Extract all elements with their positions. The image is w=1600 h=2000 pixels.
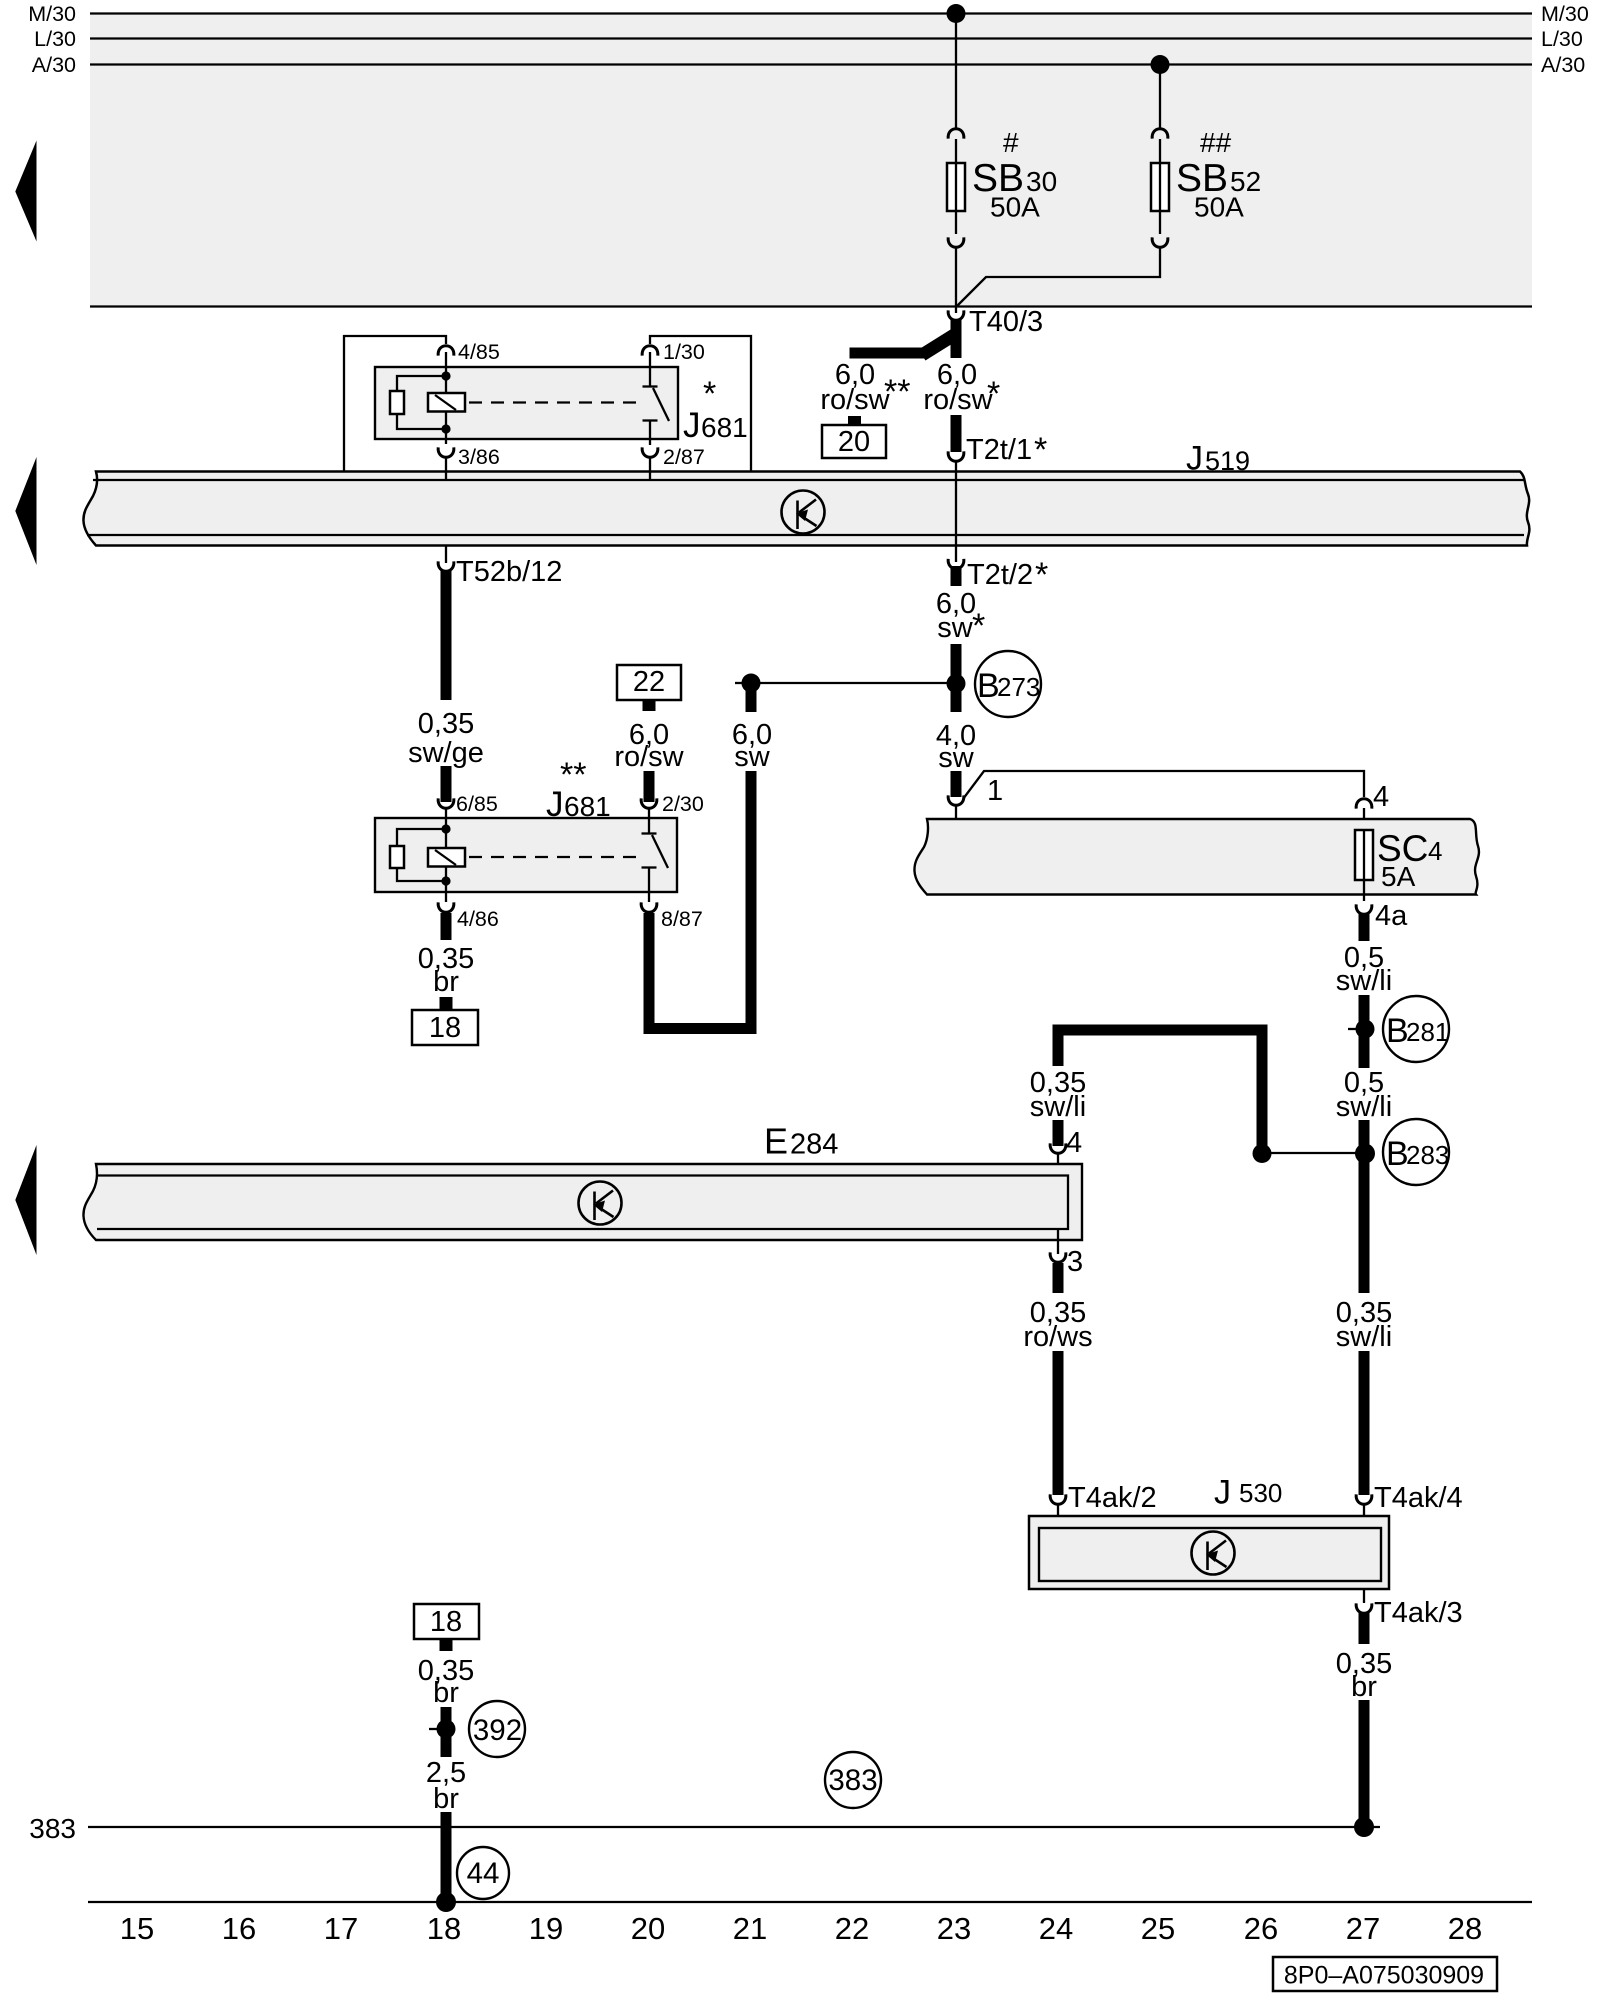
terminal T52b/12 bbox=[445, 545, 447, 563]
svg-text:4: 4 bbox=[1373, 781, 1389, 813]
relay 2 resistor branch bbox=[397, 829, 446, 846]
thin line T2t/1 to T2t/2 through J519 bbox=[955, 470, 957, 562]
wire 6,0 ro/sw** branch bbox=[850, 348, 929, 359]
svg-text:21: 21 bbox=[733, 1911, 767, 1946]
svg-text:4/86: 4/86 bbox=[457, 907, 499, 931]
svg-text:383: 383 bbox=[828, 1764, 877, 1797]
svg-text:sw/li: sw/li bbox=[1336, 1321, 1392, 1353]
svg-text:25: 25 bbox=[1141, 1911, 1175, 1946]
junction on ground line 383 bbox=[1354, 1817, 1374, 1837]
terminal 8/87 bbox=[641, 902, 657, 912]
terminal T2t/1* bbox=[948, 451, 964, 461]
svg-text:4/85: 4/85 bbox=[458, 340, 500, 364]
bus bar A/30 bbox=[90, 63, 1532, 65]
svg-text:ro/sw: ro/sw bbox=[923, 384, 993, 416]
svg-text:284: 284 bbox=[790, 1129, 838, 1161]
svg-text:*: * bbox=[987, 375, 1000, 413]
svg-text:273: 273 bbox=[997, 672, 1040, 702]
fuse SB52 top connector bbox=[1152, 129, 1168, 139]
svg-text:27: 27 bbox=[1346, 1911, 1380, 1946]
svg-text:M/30: M/30 bbox=[1541, 2, 1589, 26]
wire SB30 to T40/3 bbox=[955, 247, 957, 313]
svg-text:17: 17 bbox=[324, 1911, 358, 1946]
wire M/30 to fuse SB30 bbox=[955, 14, 957, 130]
svg-text:18: 18 bbox=[427, 1911, 461, 1946]
wire 6,0 sw* bbox=[951, 566, 962, 586]
svg-text:8/87: 8/87 bbox=[661, 907, 703, 931]
page arrow 3 bbox=[15, 1145, 36, 1255]
svg-text:T4ak/4: T4ak/4 bbox=[1374, 1482, 1463, 1514]
svg-text:19: 19 bbox=[529, 1911, 563, 1946]
connector 20 bbox=[848, 416, 861, 426]
wire 0,35 br (T4ak/3) bbox=[1359, 1613, 1370, 1644]
svg-text:6/85: 6/85 bbox=[456, 792, 498, 816]
fuse SB52 50A bbox=[1151, 163, 1169, 211]
connector 18 (middle) bbox=[412, 1010, 478, 1045]
terminal 1/30 bbox=[642, 346, 658, 356]
terminal 4a bbox=[1363, 894, 1365, 901]
wire 0,35 ro/ws bbox=[1053, 1263, 1064, 1293]
svg-text:*: * bbox=[1034, 431, 1047, 469]
svg-text:681: 681 bbox=[701, 412, 748, 443]
svg-text:sw/li: sw/li bbox=[1336, 1091, 1392, 1123]
svg-text:2/30: 2/30 bbox=[662, 792, 704, 816]
terminal 3 (E284) bbox=[1057, 1229, 1059, 1254]
wire SB52 elbow to T40/3 bbox=[957, 247, 1160, 306]
svg-text:sw: sw bbox=[938, 742, 975, 774]
svg-text:J: J bbox=[1214, 1474, 1231, 1512]
node B283 bbox=[1359, 1120, 1370, 1293]
svg-text:20: 20 bbox=[631, 1911, 665, 1946]
part number box bbox=[1273, 1957, 1497, 1991]
svg-text:ro/ws: ro/ws bbox=[1023, 1321, 1092, 1353]
svg-text:519: 519 bbox=[1205, 446, 1250, 476]
K symbol (J519) bbox=[782, 491, 825, 534]
relay J681 * frame right bbox=[650, 336, 751, 472]
svg-text:sw: sw bbox=[734, 741, 771, 773]
terminal 4/86 bbox=[438, 902, 454, 912]
node B273 bbox=[951, 644, 962, 712]
wire 0,35 sw/li elbow bbox=[1058, 1030, 1262, 1148]
node circle 383 bbox=[825, 1752, 881, 1808]
svg-text:18: 18 bbox=[430, 1606, 462, 1638]
terminal 3/86 bbox=[438, 447, 454, 457]
svg-text:ro/sw: ro/sw bbox=[614, 741, 684, 773]
svg-text:J: J bbox=[683, 406, 701, 445]
svg-text:T2t/2: T2t/2 bbox=[967, 559, 1033, 591]
svg-text:15: 15 bbox=[120, 1911, 154, 1946]
svg-text:4: 4 bbox=[1066, 1127, 1082, 1159]
relay 2 coil bbox=[428, 848, 465, 867]
power band bottom edge bbox=[90, 305, 1532, 307]
wire 8/87 U elbow to 6,0 sw bbox=[649, 771, 751, 1029]
terminal T40/3 bbox=[948, 310, 964, 320]
junction on A/30 bbox=[1151, 55, 1170, 74]
relay resistor branch bbox=[397, 376, 446, 391]
svg-text:L/30: L/30 bbox=[1541, 27, 1583, 51]
svg-text:22: 22 bbox=[835, 1911, 869, 1946]
terminal 4/85 bbox=[438, 346, 454, 356]
relay coil bbox=[428, 393, 465, 412]
svg-text:20: 20 bbox=[838, 426, 870, 458]
svg-text:18: 18 bbox=[429, 1012, 461, 1044]
svg-text:br: br bbox=[433, 1677, 459, 1709]
svg-text:50A: 50A bbox=[1194, 192, 1244, 223]
svg-text:J: J bbox=[1186, 440, 1203, 478]
fuse panel band bbox=[914, 819, 1478, 895]
node circle 44 bbox=[457, 1847, 509, 1899]
svg-text:T4ak/3: T4ak/3 bbox=[1374, 1597, 1463, 1629]
svg-text:392: 392 bbox=[473, 1714, 522, 1747]
fuse SB30 top connector bbox=[948, 129, 964, 139]
light switch E284 band bbox=[83, 1164, 1082, 1240]
equipotential line to B273 bbox=[751, 682, 956, 684]
equipotential line to B283 bbox=[1262, 1152, 1364, 1154]
svg-text:br: br bbox=[433, 966, 459, 998]
node B281 bbox=[1359, 995, 1370, 1068]
link line terminal 1 to terminal 4 bbox=[963, 771, 1364, 799]
svg-text:23: 23 bbox=[937, 1911, 971, 1946]
svg-text:5A: 5A bbox=[1381, 861, 1416, 892]
terminal 4 (fuse panel) bbox=[1356, 799, 1372, 809]
svg-text:sw/ge: sw/ge bbox=[408, 737, 484, 769]
junction on M/30 bbox=[947, 4, 966, 23]
connector 22 bbox=[617, 665, 681, 700]
relay J530 body bbox=[1029, 1516, 1389, 1589]
relay J681 ** terminal 2/30 bbox=[641, 798, 657, 808]
svg-text:281: 281 bbox=[1406, 1017, 1449, 1047]
svg-text:T52b/12: T52b/12 bbox=[456, 556, 562, 588]
svg-text:283: 283 bbox=[1406, 1140, 1449, 1170]
power supply band (grey) bbox=[90, 13, 1532, 307]
svg-text:A/30: A/30 bbox=[32, 53, 76, 77]
svg-text:sw: sw bbox=[937, 612, 974, 644]
svg-text:44: 44 bbox=[467, 1857, 500, 1890]
svg-text:22: 22 bbox=[633, 666, 665, 698]
page arrow 1 bbox=[15, 141, 36, 242]
bus bar L/30 bbox=[90, 37, 1532, 39]
junction node near 22 bbox=[735, 682, 746, 684]
terminal T4ak/2 bbox=[1050, 1494, 1066, 1504]
bottom rail bbox=[88, 1901, 1532, 1903]
terminal T2t/2* bbox=[948, 559, 964, 569]
svg-text:sw/li: sw/li bbox=[1030, 1091, 1086, 1123]
svg-text:50A: 50A bbox=[990, 192, 1040, 223]
wire A/30 to fuse SB52 bbox=[1159, 65, 1161, 130]
svg-text:L/30: L/30 bbox=[34, 27, 76, 51]
relay J681 ** body bbox=[375, 818, 677, 892]
K symbol (E284) bbox=[579, 1182, 622, 1225]
terminal 1 (fuse panel) bbox=[948, 795, 964, 805]
svg-text:24: 24 bbox=[1039, 1911, 1073, 1946]
svg-text:##: ## bbox=[1200, 127, 1232, 158]
svg-text:383: 383 bbox=[29, 1813, 76, 1844]
svg-text:3: 3 bbox=[1067, 1246, 1083, 1278]
terminal T4ak/3 bbox=[1363, 1589, 1365, 1603]
svg-text:**: ** bbox=[884, 373, 910, 411]
svg-text:26: 26 bbox=[1244, 1911, 1278, 1946]
svg-text:sw/li: sw/li bbox=[1336, 965, 1392, 997]
page arrow 2 bbox=[15, 457, 36, 565]
svg-text:4a: 4a bbox=[1375, 900, 1408, 932]
svg-text:3/86: 3/86 bbox=[458, 445, 500, 469]
relay J681 ** terminal 6/85 bbox=[438, 798, 454, 808]
relay J681 * frame left bbox=[344, 336, 446, 472]
connector 18 (bottom) bbox=[414, 1604, 479, 1639]
svg-text:**: ** bbox=[560, 756, 586, 794]
svg-text:M/30: M/30 bbox=[28, 2, 76, 26]
svg-text:*: * bbox=[1035, 556, 1048, 594]
fuse SB52 bottom connector bbox=[1152, 237, 1168, 247]
svg-text:E: E bbox=[764, 1121, 788, 1162]
svg-text:*: * bbox=[972, 607, 985, 645]
fuse SC4 5A bbox=[1355, 830, 1373, 880]
terminal T4ak/4 bbox=[1356, 1494, 1372, 1504]
svg-text:1: 1 bbox=[987, 775, 1003, 807]
relay 2 dashed link bbox=[469, 856, 642, 858]
J519 band inner top edge bbox=[93, 479, 1524, 481]
svg-text:T2t/1: T2t/1 bbox=[966, 434, 1032, 466]
svg-text:ro/sw: ro/sw bbox=[820, 384, 890, 416]
svg-text:8P0–A075030909: 8P0–A075030909 bbox=[1284, 1962, 1484, 1990]
relay 2 switch bbox=[648, 818, 650, 833]
svg-text:4: 4 bbox=[1428, 836, 1442, 866]
relay actuate dashed link bbox=[469, 401, 642, 403]
wire 6,0 ro/sw* vertical bbox=[951, 319, 962, 358]
relay 2 coil feed wire bbox=[445, 818, 447, 849]
svg-text:*: * bbox=[703, 375, 716, 413]
svg-text:1/30: 1/30 bbox=[663, 340, 705, 364]
terminal 4 (E284) bbox=[1050, 1143, 1066, 1153]
terminal 2/87 bbox=[642, 447, 658, 457]
ground line 383 bbox=[88, 1826, 1380, 1828]
K symbol (J530) bbox=[1192, 1532, 1235, 1575]
svg-text:T4ak/2: T4ak/2 bbox=[1068, 1482, 1157, 1514]
svg-text:530: 530 bbox=[1239, 1478, 1282, 1508]
wire 0,35 sw/ge bbox=[441, 570, 452, 700]
J519 band inner bottom edge bbox=[87, 534, 1524, 536]
svg-text:#: # bbox=[1003, 127, 1019, 158]
svg-text:28: 28 bbox=[1448, 1911, 1482, 1946]
wire 0,5 sw/li upper bbox=[1359, 913, 1370, 941]
bus bar M/30 bbox=[90, 12, 1532, 14]
node circle 392 bbox=[469, 1701, 525, 1757]
relay coil feed wire bbox=[445, 352, 447, 394]
svg-text:A/30: A/30 bbox=[1541, 53, 1585, 77]
fuse SB30 bottom connector bbox=[948, 237, 964, 247]
relay switch bbox=[649, 352, 651, 386]
relay J681 * body bbox=[375, 367, 678, 439]
svg-text:br: br bbox=[1351, 1671, 1377, 1703]
pin T2t/1 into J519 bbox=[955, 460, 957, 470]
svg-text:br: br bbox=[433, 1783, 459, 1815]
control unit J519 band bbox=[83, 472, 1529, 546]
wire 0,35 br to connector 18 bbox=[441, 913, 452, 940]
svg-text:0,35: 0,35 bbox=[418, 708, 474, 740]
svg-text:2/87: 2/87 bbox=[663, 445, 705, 469]
fuse SB30 50A bbox=[947, 163, 965, 211]
svg-text:T40/3: T40/3 bbox=[969, 306, 1043, 338]
svg-text:16: 16 bbox=[222, 1911, 256, 1946]
